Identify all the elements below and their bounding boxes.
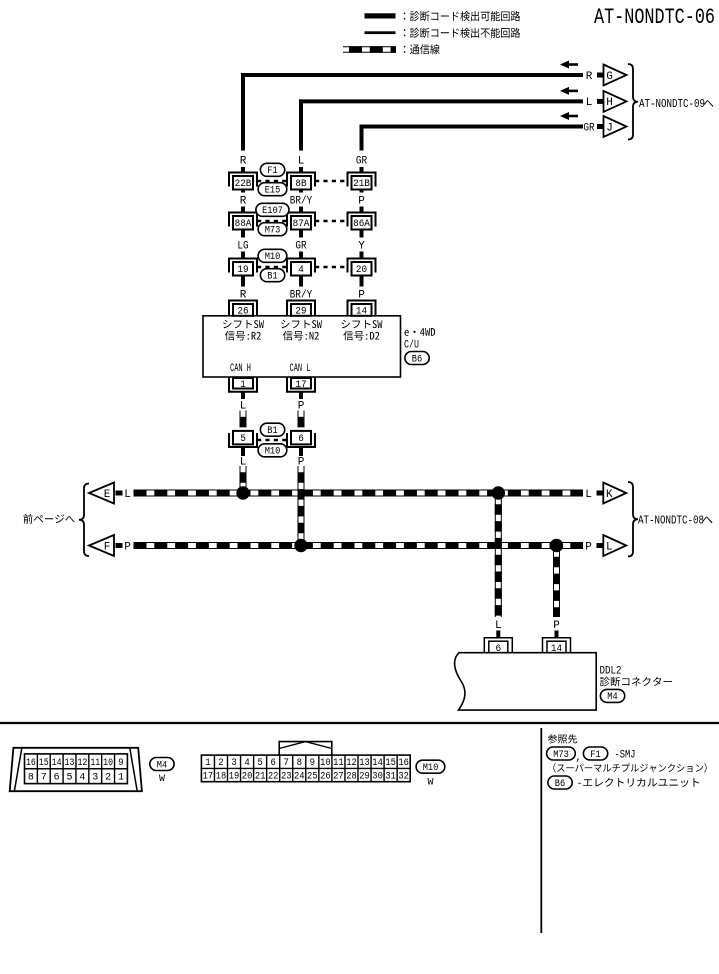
- svg-text:E107: E107: [262, 205, 283, 217]
- svg-text:H: H: [606, 97, 613, 109]
- svg-text:AT-NONDTC-06: AT-NONDTC-06: [594, 5, 715, 30]
- svg-text:30: 30: [372, 772, 383, 783]
- svg-text:B1: B1: [267, 271, 277, 283]
- svg-text:1: 1: [240, 379, 246, 391]
- svg-text:DDL2: DDL2: [600, 666, 622, 678]
- svg-text:M10: M10: [265, 446, 281, 458]
- svg-text:M73: M73: [265, 225, 281, 237]
- svg-text:24: 24: [294, 772, 305, 783]
- svg-text:17: 17: [203, 772, 214, 783]
- svg-text:10: 10: [103, 758, 113, 769]
- svg-text:7: 7: [41, 773, 47, 784]
- svg-text:GR: GR: [583, 122, 595, 134]
- svg-text:5: 5: [240, 433, 246, 445]
- svg-text:L: L: [585, 489, 592, 501]
- svg-text:GR: GR: [295, 240, 307, 252]
- svg-text:L: L: [586, 97, 593, 109]
- svg-text:15: 15: [39, 758, 49, 769]
- svg-text:C/U: C/U: [404, 339, 419, 351]
- svg-text:14: 14: [372, 758, 383, 769]
- svg-text:M4: M4: [157, 759, 167, 771]
- svg-text:GR: GR: [356, 155, 368, 167]
- svg-text:F1: F1: [590, 749, 600, 761]
- svg-text:W: W: [159, 774, 165, 785]
- svg-text:B6: B6: [412, 353, 422, 365]
- svg-text:1: 1: [118, 773, 124, 784]
- svg-text:15: 15: [385, 758, 396, 769]
- svg-text:21B: 21B: [353, 178, 370, 190]
- svg-text:CAN H: CAN H: [230, 363, 251, 375]
- svg-text:-SMJ: -SMJ: [615, 749, 636, 761]
- svg-text:16: 16: [398, 758, 409, 769]
- svg-text:6: 6: [298, 433, 304, 445]
- svg-text:4: 4: [298, 264, 304, 276]
- svg-text:4: 4: [244, 758, 249, 769]
- svg-text:26: 26: [320, 772, 331, 783]
- svg-text:M10: M10: [423, 762, 439, 774]
- svg-text:13: 13: [359, 758, 370, 769]
- svg-text:J: J: [606, 122, 613, 134]
- svg-text:P: P: [358, 195, 365, 207]
- svg-text:6: 6: [54, 773, 60, 784]
- svg-text:9: 9: [118, 758, 123, 769]
- svg-text:R: R: [240, 155, 247, 167]
- svg-text:20: 20: [356, 264, 367, 276]
- svg-text:10: 10: [320, 758, 331, 769]
- svg-text:87A: 87A: [293, 218, 310, 230]
- svg-text:Y: Y: [358, 240, 365, 252]
- svg-text:M10: M10: [265, 251, 281, 263]
- svg-text:26: 26: [237, 305, 248, 317]
- svg-text:L: L: [298, 155, 305, 167]
- svg-text:28: 28: [346, 772, 357, 783]
- svg-text:L: L: [240, 456, 247, 468]
- svg-text:21: 21: [255, 772, 266, 783]
- svg-text:B6: B6: [555, 778, 565, 790]
- svg-text:11: 11: [333, 758, 344, 769]
- svg-text:LG: LG: [237, 240, 248, 252]
- svg-text:86A: 86A: [353, 218, 370, 230]
- svg-text:17: 17: [295, 379, 306, 391]
- svg-text:E: E: [104, 489, 111, 501]
- svg-text:14: 14: [52, 758, 62, 769]
- svg-text:8: 8: [28, 773, 34, 784]
- svg-text:BR/Y: BR/Y: [290, 195, 313, 207]
- svg-text:88A: 88A: [235, 218, 252, 230]
- svg-text:29: 29: [359, 772, 370, 783]
- svg-text:27: 27: [333, 772, 344, 783]
- svg-text:E15: E15: [265, 185, 281, 197]
- svg-text:1: 1: [205, 758, 210, 769]
- svg-text:22: 22: [268, 772, 279, 783]
- svg-text:P: P: [553, 620, 560, 632]
- svg-text:2: 2: [218, 758, 223, 769]
- svg-text:25: 25: [307, 772, 318, 783]
- svg-text:M73: M73: [553, 749, 569, 761]
- svg-text:11: 11: [90, 758, 100, 769]
- svg-text:32: 32: [398, 772, 409, 783]
- svg-text:L: L: [124, 489, 131, 501]
- svg-text:F: F: [104, 541, 111, 553]
- svg-text:20: 20: [242, 772, 253, 783]
- svg-text:16: 16: [26, 758, 36, 769]
- svg-text:B1: B1: [267, 425, 277, 437]
- svg-text:29: 29: [295, 305, 306, 317]
- svg-text:12: 12: [346, 758, 357, 769]
- svg-text:2: 2: [105, 773, 111, 784]
- svg-text:AT-NONDTC-08: AT-NONDTC-08: [638, 514, 704, 528]
- svg-text:31: 31: [385, 772, 396, 783]
- svg-text:R: R: [240, 195, 247, 207]
- svg-text:,: ,: [575, 752, 582, 764]
- svg-text:G: G: [606, 71, 613, 83]
- svg-text:K: K: [606, 489, 613, 501]
- svg-text:8: 8: [297, 758, 302, 769]
- svg-text:9: 9: [310, 758, 315, 769]
- svg-text:F1: F1: [267, 165, 277, 177]
- svg-text:6: 6: [270, 758, 275, 769]
- svg-text:4: 4: [79, 773, 85, 784]
- svg-text:19: 19: [237, 264, 248, 276]
- svg-text:22B: 22B: [235, 178, 252, 190]
- svg-text:L: L: [606, 541, 613, 553]
- svg-text:13: 13: [65, 758, 75, 769]
- svg-text:P: P: [585, 541, 592, 553]
- svg-text:5: 5: [257, 758, 262, 769]
- svg-text:18: 18: [216, 772, 227, 783]
- svg-text:3: 3: [231, 758, 236, 769]
- svg-text:W: W: [427, 777, 433, 788]
- svg-text:8B: 8B: [295, 178, 306, 190]
- svg-text:P: P: [124, 541, 131, 553]
- svg-text:AT-NONDTC-09: AT-NONDTC-09: [639, 97, 705, 111]
- svg-text:7: 7: [284, 758, 289, 769]
- svg-text:L: L: [495, 620, 502, 632]
- svg-text:CAN L: CAN L: [290, 363, 311, 375]
- svg-text:R: R: [586, 71, 593, 83]
- svg-text:12: 12: [77, 758, 87, 769]
- svg-text:M4: M4: [607, 691, 617, 703]
- svg-text:19: 19: [229, 772, 240, 783]
- svg-text:14: 14: [356, 305, 367, 317]
- svg-text:5: 5: [67, 773, 73, 784]
- svg-text:23: 23: [281, 772, 292, 783]
- svg-text:3: 3: [92, 773, 98, 784]
